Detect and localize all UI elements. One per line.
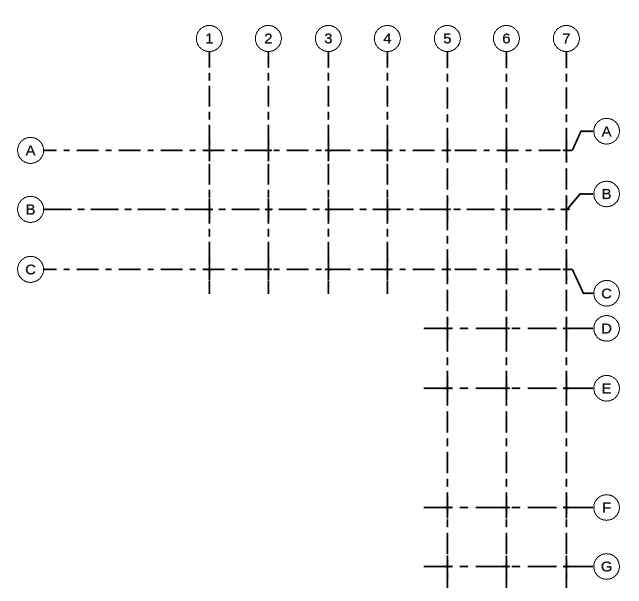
grid intersection ticks bbox=[206, 139, 570, 577]
grid line B left bubble bbox=[18, 196, 44, 222]
grid line 7 (vertical dash-dot) bbox=[565, 52, 567, 589]
svg-text:C: C bbox=[25, 263, 36, 279]
grid line 4 (vertical dash-dot) bbox=[386, 52, 388, 295]
svg-text:C: C bbox=[601, 287, 612, 303]
svg-text:B: B bbox=[26, 203, 36, 219]
grid line F leader bbox=[567, 507, 594, 509]
grid line 3 bubble bbox=[315, 26, 341, 52]
grid line D (horizontal dash-dot) bbox=[424, 327, 567, 329]
grid line D right bubble bbox=[594, 316, 620, 342]
grid line A left bubble bbox=[18, 137, 44, 163]
grid line 3 (vertical dash-dot) bbox=[327, 52, 329, 295]
grid line E leader bbox=[567, 387, 594, 389]
svg-text:4: 4 bbox=[383, 32, 391, 48]
svg-text:D: D bbox=[601, 322, 612, 338]
svg-text:G: G bbox=[601, 560, 613, 576]
grid line 5 (vertical dash-dot) bbox=[446, 52, 448, 589]
svg-text:1: 1 bbox=[205, 32, 213, 48]
grid line B right bubble bbox=[594, 181, 620, 207]
grid line E right bubble bbox=[594, 376, 620, 402]
grid line A right bubble bbox=[594, 118, 620, 144]
grid line A leader elbow bbox=[572, 131, 593, 150]
svg-text:3: 3 bbox=[324, 32, 332, 48]
svg-text:5: 5 bbox=[443, 32, 451, 48]
grid line G (horizontal dash-dot) bbox=[424, 566, 567, 568]
grid line B leader elbow bbox=[567, 194, 593, 209]
svg-text:2: 2 bbox=[264, 32, 272, 48]
svg-text:F: F bbox=[602, 501, 611, 517]
grid line 7 bubble bbox=[553, 26, 579, 52]
grid line 2 bubble bbox=[255, 26, 281, 52]
grid line D leader bbox=[567, 327, 594, 329]
grid line F (horizontal dash-dot) bbox=[424, 507, 567, 509]
grid line C right bubble bbox=[594, 281, 620, 307]
svg-text:B: B bbox=[602, 187, 612, 203]
grid line 6 bubble bbox=[493, 26, 519, 52]
svg-text:A: A bbox=[602, 124, 612, 140]
grid line G leader bbox=[567, 566, 594, 568]
grid line C (horizontal dash-dot) bbox=[44, 268, 573, 270]
grid line 6 (vertical dash-dot) bbox=[505, 52, 507, 589]
svg-text:E: E bbox=[602, 382, 612, 398]
grid line 4 bubble bbox=[374, 26, 400, 52]
svg-text:7: 7 bbox=[562, 32, 570, 48]
svg-text:A: A bbox=[26, 144, 36, 160]
grid line E (horizontal dash-dot) bbox=[424, 387, 567, 389]
grid line G right bubble bbox=[594, 554, 620, 580]
grid line 2 (vertical dash-dot) bbox=[267, 52, 269, 295]
grid line C leader elbow bbox=[572, 269, 593, 293]
svg-text:6: 6 bbox=[502, 32, 510, 48]
grid line A (horizontal dash-dot) bbox=[44, 149, 573, 151]
grid line C left bubble bbox=[18, 256, 44, 282]
grid line F right bubble bbox=[594, 495, 620, 521]
grid line 5 bubble bbox=[434, 26, 460, 52]
grid line 1 bubble bbox=[196, 26, 222, 52]
grid line 1 (vertical dash-dot) bbox=[208, 52, 210, 295]
grid line B (horizontal dash-dot) bbox=[44, 208, 567, 210]
